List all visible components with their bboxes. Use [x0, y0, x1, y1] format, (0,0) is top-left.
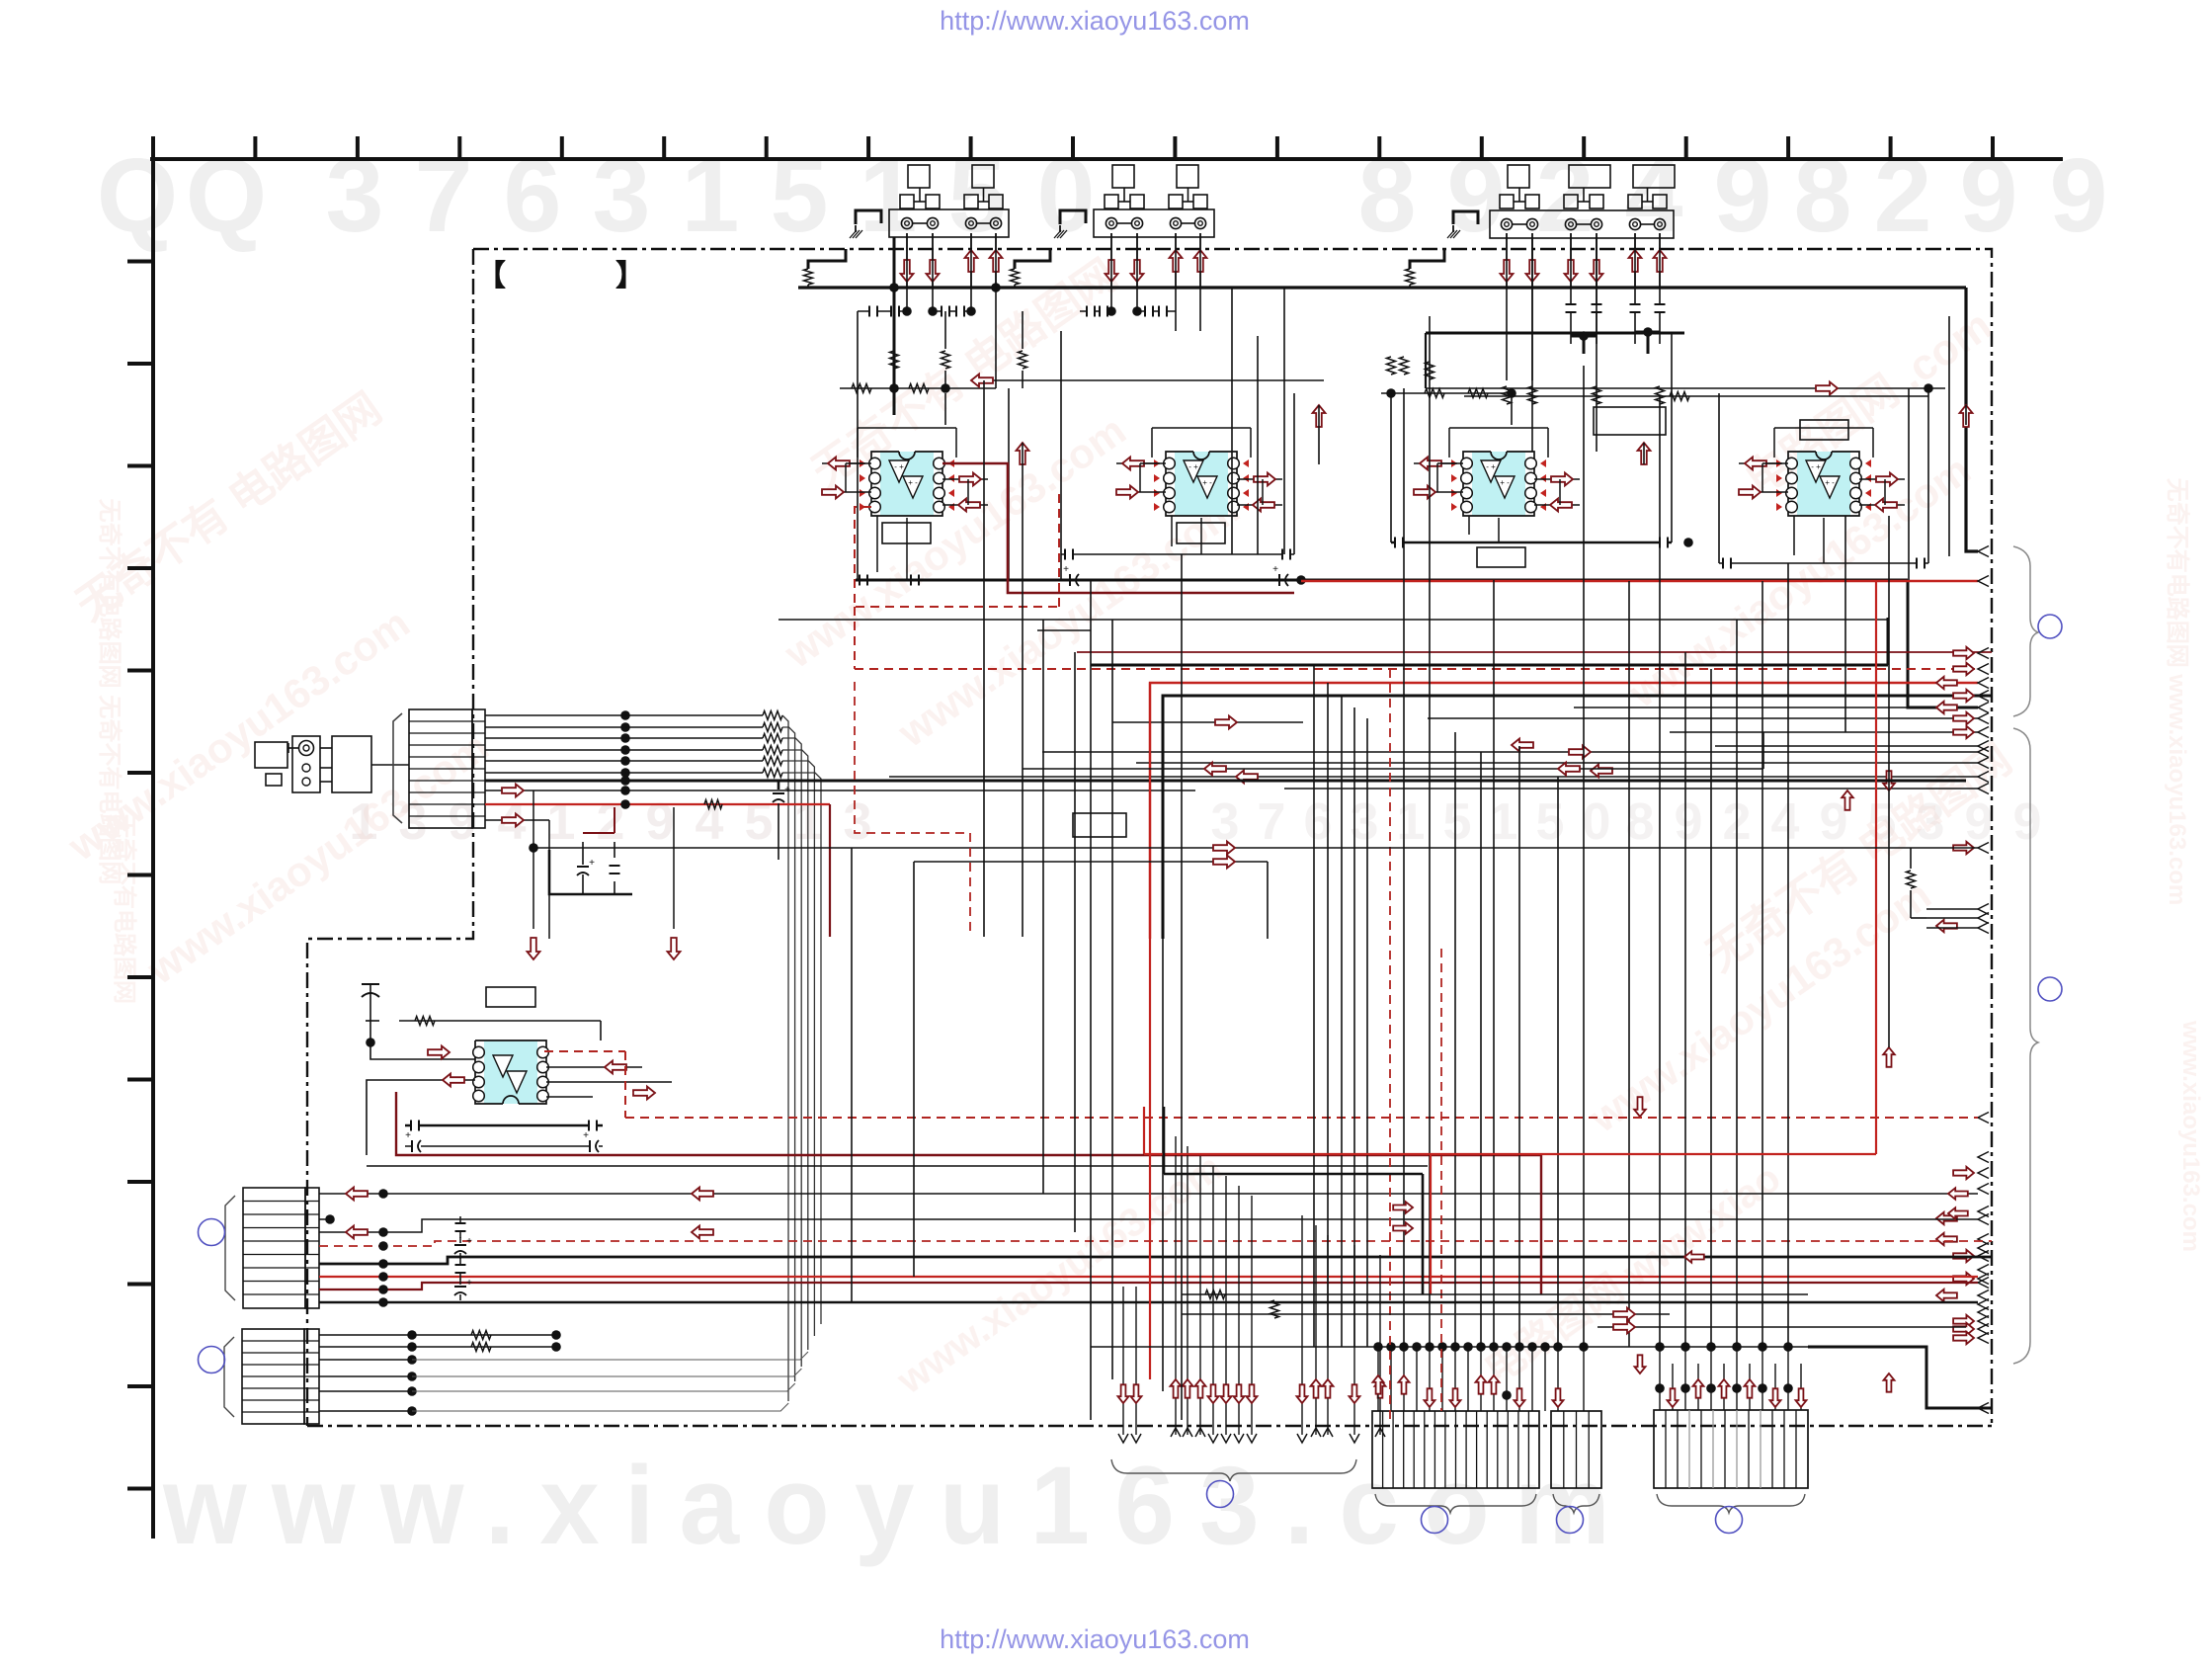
arrows above CN401 — [1373, 1342, 1589, 1411]
svg-text:+ -: + - — [1825, 478, 1835, 487]
svg-text:8: 8 — [1358, 137, 1417, 254]
reference circle CN301 — [199, 1219, 225, 1246]
IC U5 (dual op-amp) — [473, 1040, 549, 1104]
long vertical wires — [894, 237, 1949, 1424]
connector CN302 (lower left block) — [224, 1329, 319, 1424]
svg-text:Q: Q — [97, 137, 178, 254]
arrows around U1 — [822, 458, 988, 512]
sheet ruler top edge — [150, 136, 2063, 159]
ground symbol near CN102 — [1054, 210, 1086, 238]
CN302 wires — [319, 1330, 808, 1416]
IC U2 (dual op-amp channel 2) — [1154, 452, 1249, 516]
svg-text:3: 3 — [326, 137, 384, 254]
dashed red link mid-left — [855, 682, 970, 937]
module loop wires U1-U4 — [846, 311, 1885, 580]
connector with jack left-middle — [288, 736, 320, 792]
svg-text:+: + — [466, 1236, 472, 1247]
svg-text:- +: - + — [1486, 462, 1496, 471]
svg-text:4: 4 — [1771, 793, 1800, 851]
brace under CN403 — [1657, 1494, 1805, 1513]
svg-text:无奇不有电路图网 www.xiaoyu163.com: 无奇不有电路图网 www.xiaoyu163.com — [2164, 478, 2191, 906]
wire thick stub group3 — [1410, 249, 1444, 269]
svg-text:0: 0 — [1037, 137, 1096, 254]
watermark faint top digits — [97, 137, 2108, 254]
capacitor row under group1 — [858, 233, 1001, 317]
resistor column group1 — [890, 288, 1027, 388]
svg-text:+: + — [1063, 564, 1069, 575]
arrows above CN403 — [1655, 1342, 1806, 1410]
FFC fanout wires — [485, 710, 1966, 1401]
svg-text:9: 9 — [1447, 137, 1506, 254]
svg-text:3: 3 — [844, 793, 872, 851]
resistor under stub3 — [1406, 269, 1415, 285]
connector CN103 (jack group 3) — [1490, 165, 1675, 238]
watermark faint middle digits — [350, 793, 2042, 851]
IC U4 value box — [1800, 420, 1848, 440]
arrows around U4 — [1739, 458, 1905, 512]
sheet ruler left edge — [127, 157, 153, 1539]
ground symbol near CN103 — [1447, 211, 1478, 238]
reference circle CN403 — [1716, 1507, 1743, 1534]
svg-text:5: 5 — [1536, 793, 1565, 851]
wire y858 crossing to border — [529, 842, 1978, 1303]
svg-text:0: 0 — [1583, 793, 1611, 851]
svg-text:4: 4 — [696, 793, 724, 851]
reference circle CN402 — [1557, 1507, 1584, 1534]
lower-right horizontal wires — [1091, 581, 1992, 1408]
svg-text:9: 9 — [1714, 137, 1772, 254]
watermark pink diagonals — [59, 251, 2204, 1403]
vertical arrows right area — [1634, 771, 1978, 1117]
capacitor row under group2 — [1080, 233, 1200, 331]
capacitor rows under U2 — [1061, 549, 1306, 587]
component small box B — [266, 774, 282, 786]
svg-text:3: 3 — [593, 137, 651, 254]
label box above U3 — [1594, 407, 1666, 435]
reference circle right upper — [2038, 615, 2062, 638]
wire with left arrow mid-top — [971, 374, 1324, 426]
capacitor row under U3 — [1391, 538, 1693, 548]
wire main top bus — [798, 285, 1978, 551]
svg-text:http://www.xiaoyu163.com: http://www.xiaoyu163.com — [940, 1624, 1250, 1654]
svg-text:】: 】 — [615, 260, 645, 292]
arrows around U3 — [1414, 458, 1580, 512]
svg-text:3: 3 — [1211, 793, 1240, 851]
reference circle CN302 — [199, 1347, 225, 1373]
svg-text:【: 【 — [476, 260, 506, 292]
capacitor row under group3 — [1507, 233, 1666, 380]
svg-text:http://www.xiaoyu163.com: http://www.xiaoyu163.com — [940, 6, 1250, 36]
connector CN102 (jack group 2) — [1094, 165, 1214, 237]
svg-text:9: 9 — [646, 793, 675, 851]
pin header CN403 — [1654, 1410, 1808, 1488]
capacitor cluster under FFC — [549, 807, 632, 894]
svg-text:5: 5 — [745, 793, 774, 851]
svg-text:1: 1 — [547, 793, 576, 851]
watermark faint bottom www.xiaoyu163.com — [162, 1444, 1635, 1567]
svg-text:1: 1 — [1397, 793, 1426, 851]
svg-text:2: 2 — [1874, 137, 1932, 254]
wiring around U5 — [362, 983, 1978, 1155]
svg-text:6: 6 — [504, 137, 562, 254]
svg-text:+ -: + - — [908, 478, 918, 487]
ground symbol near CN101 — [850, 210, 881, 238]
svg-text:9: 9 — [2013, 793, 2042, 851]
IC U1 (dual op-amp channel 1) — [860, 452, 954, 516]
svg-text:- +: - + — [1811, 462, 1821, 471]
arrows near right edge — [1936, 647, 1974, 1344]
IC U4 (dual op-amp channel 4) — [1776, 452, 1871, 516]
reference circle bundle — [1207, 1481, 1234, 1508]
reference circle right lower — [2038, 977, 2062, 1001]
reference circle CN401 — [1422, 1507, 1448, 1534]
pin header CN401 — [1372, 1411, 1539, 1488]
brace under bundle — [1111, 1459, 1356, 1481]
svg-text:9: 9 — [2050, 137, 2108, 254]
svg-text:5: 5 — [1443, 793, 1472, 851]
IC U3 (dual op-amp channel 3) — [1451, 452, 1546, 516]
wire thick stub group1 — [808, 249, 846, 269]
svg-text:+ -: + - — [1500, 478, 1510, 487]
pin header CN402 — [1551, 1411, 1601, 1488]
board boundary dash-dot outline — [307, 249, 1992, 1426]
connector CN301 (upper left block) — [225, 1188, 319, 1308]
resistor under stub2 — [1011, 269, 1020, 285]
svg-text:7: 7 — [415, 137, 473, 254]
right margin brace lower — [2013, 728, 2038, 1364]
signal arrows below jack groups — [901, 233, 1667, 288]
svg-text:+: + — [1272, 564, 1278, 575]
svg-text:9: 9 — [1960, 137, 2018, 254]
bottom signal bundle arrows — [1118, 1136, 1386, 1443]
svg-text:7: 7 — [1258, 793, 1286, 851]
value box mid-center — [1073, 813, 1126, 837]
svg-text:8: 8 — [1626, 793, 1655, 851]
svg-text:+: + — [583, 1130, 589, 1141]
arrows around U2 — [1116, 458, 1282, 512]
svg-text:+: + — [466, 1278, 472, 1289]
wire thick stub group2 — [1015, 249, 1050, 269]
right margin brace upper — [2013, 546, 2038, 716]
svg-text:8: 8 — [1794, 137, 1852, 254]
svg-text:1: 1 — [682, 137, 740, 254]
capacitor pair under U1 — [856, 575, 1009, 586]
resistor row under group1 — [840, 311, 996, 393]
svg-text:+ -: + - — [1202, 478, 1212, 487]
IC U3 value box — [1477, 547, 1525, 567]
svg-text:www.xiaoyu163.com: www.xiaoyu163.com — [2177, 1020, 2204, 1252]
svg-text:- +: - + — [1188, 462, 1198, 471]
IC U5 value box — [486, 987, 535, 1007]
wire y778 with arrows — [1023, 732, 1763, 776]
svg-text:5: 5 — [771, 137, 829, 254]
boundary chevrons right edge — [1978, 546, 1989, 1414]
relay box left-middle — [320, 736, 409, 792]
svg-text:+: + — [405, 1130, 411, 1141]
resistor column group2/3 — [1387, 357, 1665, 404]
resistor row under group2 — [1381, 388, 1516, 425]
svg-text:2: 2 — [597, 793, 625, 851]
CN301 wires — [319, 1188, 1992, 1307]
wire band middle horizontals — [778, 463, 1992, 939]
IC U1 value box — [882, 523, 931, 543]
wire with right arrow right-top — [1426, 333, 1945, 401]
svg-text:9: 9 — [1675, 793, 1703, 851]
svg-text:+: + — [589, 858, 595, 869]
component small box A — [255, 742, 287, 768]
vertical arrows top area — [1017, 405, 1973, 464]
capacitor rows under U5 — [367, 1092, 1541, 1166]
FFC connector CN201 left-middle — [393, 709, 485, 828]
resistor under stub1 — [804, 269, 813, 285]
brace under CN402 — [1553, 1494, 1599, 1513]
brace under CN401 — [1375, 1494, 1536, 1513]
svg-text:- +: - + — [894, 462, 904, 471]
IC U2 value box — [1177, 523, 1225, 543]
capacitor row under U4 — [1719, 558, 1928, 569]
connector CN101 (jack group 1) — [889, 165, 1009, 237]
svg-text:+: + — [784, 785, 790, 795]
